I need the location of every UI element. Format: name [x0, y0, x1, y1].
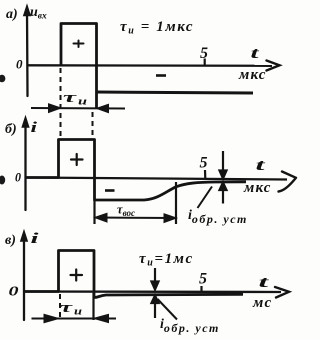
leader line (б) — [198, 187, 213, 209]
dashed left pulse edge extension — [60, 68, 62, 138]
scan speck middle left edge — [0, 176, 5, 185]
tick at 5 (б) — [204, 170, 207, 179]
scan speck upper left edge — [0, 75, 5, 83]
dashed left pulse edge below axis (в) — [59, 294, 61, 319]
svg-text:б): б) — [5, 122, 17, 137]
svg-text:5: 5 — [200, 155, 208, 172]
x-axis (б) — [26, 178, 288, 180]
y-axis (в) — [21, 231, 27, 320]
svg-text:в): в) — [5, 233, 16, 248]
right pulse edge extension to dimension (в) — [92, 293, 94, 320]
y-axis (б) — [22, 117, 28, 210]
tick at 5 (a) — [204, 59, 206, 67]
down arrow to axis (в) — [152, 268, 159, 290]
up arrow to settled level (в) — [152, 296, 159, 319]
minus sign (б) — [105, 189, 115, 192]
iобр.уст down arrow (б) — [220, 151, 227, 179]
diode current waveform (б): pulse, reverse dip, recovery — [26, 140, 246, 201]
svg-text:мс: мс — [252, 295, 272, 311]
plus sign (a) — [74, 41, 84, 48]
svg-text:и: и — [74, 307, 83, 318]
leader line (в) — [158, 299, 178, 320]
svg-text:t: t — [256, 157, 266, 174]
input voltage pulse waveform (a) — [61, 24, 97, 109]
τи dimension line (в) — [32, 315, 117, 322]
pulse edge extension down to dimension (б) — [93, 200, 95, 224]
svg-text:t: t — [259, 274, 270, 291]
svg-text:0: 0 — [16, 57, 23, 72]
τвос dimension right boundary bar — [175, 182, 177, 224]
plus sign (в) — [71, 270, 83, 281]
svg-text:τи=1мс: τи=1мс — [139, 251, 194, 269]
x-axis arrowhead (б) — [279, 172, 297, 192]
y-axis (a) — [24, 6, 30, 97]
negative level line (a) — [97, 92, 254, 93]
svg-text:мкс: мкс — [243, 180, 272, 196]
x-axis arrowhead (a) — [267, 61, 280, 71]
svg-text:а): а) — [6, 7, 18, 22]
x-axis arrowhead (в) — [275, 287, 289, 298]
iобр.уст up arrow (б) — [220, 183, 227, 204]
x-axis (в) — [24, 290, 281, 293]
plus sign (б) — [71, 154, 83, 165]
svg-text:5: 5 — [200, 45, 208, 62]
svg-text:мкс: мкс — [238, 67, 267, 83]
minus sign (a) — [156, 74, 166, 77]
svg-text:0: 0 — [9, 285, 19, 300]
current pulse waveform (в): pulse, tiny dip, settled reverse current — [25, 251, 243, 298]
svg-text:0: 0 — [15, 170, 21, 185]
tick at 5 (в) — [200, 286, 202, 293]
svg-text:t: t — [251, 45, 260, 62]
x-axis (a) — [27, 64, 272, 67]
svg-text:и: и — [78, 97, 88, 108]
svg-text:5: 5 — [199, 271, 207, 288]
τи dimension line (a) — [31, 105, 125, 113]
dashed right pulse edge extension — [92, 112, 94, 138]
τвос dimension line with arrows — [96, 214, 175, 222]
